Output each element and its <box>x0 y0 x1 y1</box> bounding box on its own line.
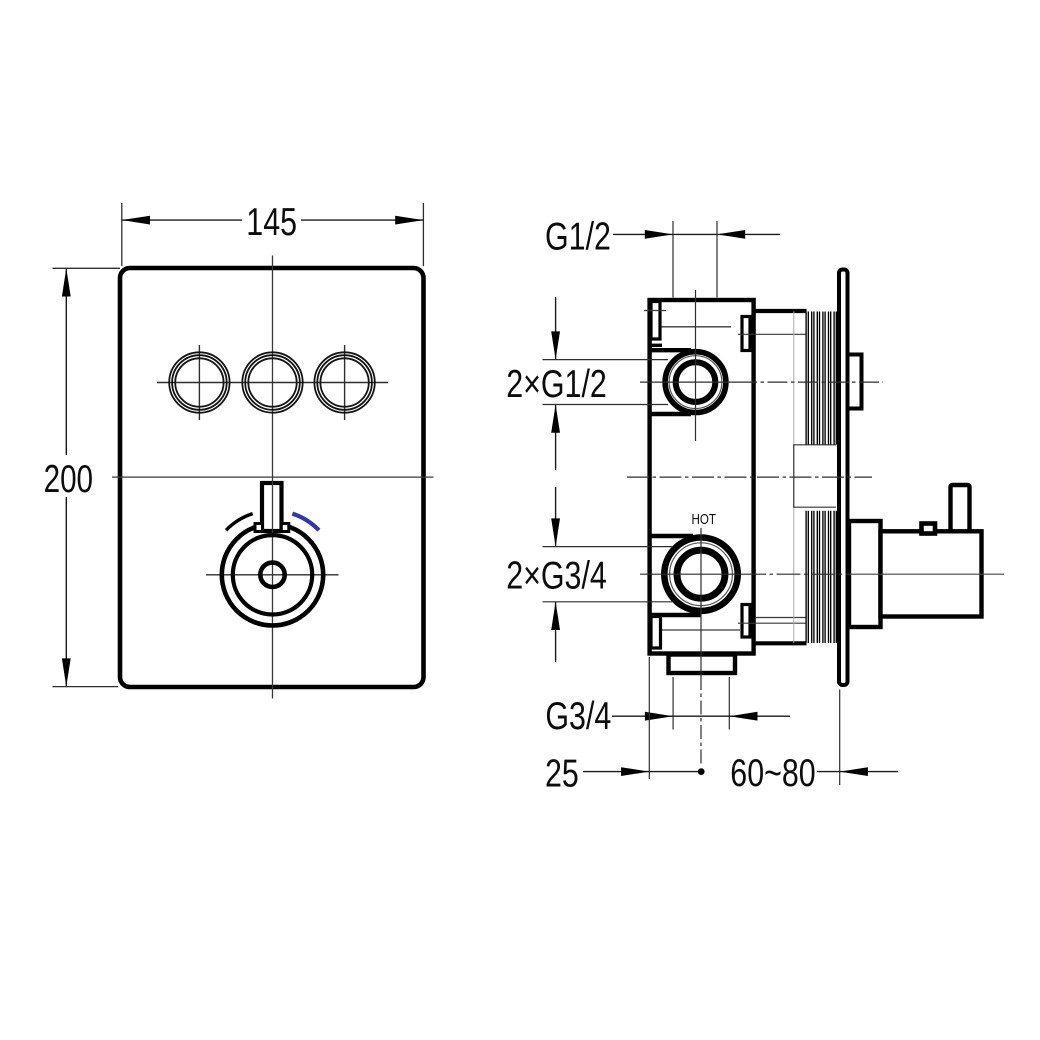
dimension G1/2 arrow right <box>717 230 745 239</box>
button 1 crosshair <box>198 345 200 420</box>
dimension 2xG3/4 ext line top <box>543 546 673 548</box>
handle body <box>881 531 982 616</box>
dimension G3/4 line <box>612 715 790 717</box>
dimension node dot <box>698 768 705 775</box>
dimension 145 arrow right <box>395 216 423 225</box>
lower port thread ring <box>677 550 725 598</box>
dimension 25 line <box>583 771 701 773</box>
rotation arc black <box>226 514 253 531</box>
knob stem ear right <box>281 524 289 532</box>
sleeve inner line bottom 1 <box>756 617 806 619</box>
dimension G3/4 arrow left <box>645 712 673 721</box>
dimension text 2xG3/4 <box>506 554 607 597</box>
temperature pin <box>951 485 970 533</box>
upper port boss bottom <box>650 412 691 416</box>
upper port outer circle <box>665 352 726 413</box>
dimension 2xG1/2 ext line bottom <box>543 404 669 406</box>
plate vertical centerline <box>272 256 274 699</box>
dimension text 145 <box>246 200 297 243</box>
button 1 <box>169 352 229 412</box>
dimension 25-60~80 ext line right <box>839 690 841 786</box>
wall plate bar <box>839 270 848 686</box>
wall plate bump upper <box>847 355 862 409</box>
centerline upper port vertical <box>695 290 697 441</box>
upper port boss top <box>650 348 691 352</box>
knob horizontal crosshair <box>206 574 339 576</box>
centerline spigot vertical <box>700 676 702 766</box>
dimension G1/2 ext line left <box>672 221 674 298</box>
lower port boss top <box>650 534 693 539</box>
dimension G1/2 arrow left <box>645 230 673 239</box>
dimension 200 arrow top <box>62 268 71 296</box>
dimension 2xG3/4 arrow bottom <box>551 602 560 630</box>
dimension 2xG1/2 arrow top <box>551 331 560 359</box>
centerline middle horizontal <box>627 476 872 478</box>
dimension G3/4 ext line left <box>672 677 674 730</box>
dimension 2xG3/4 line bottom <box>555 602 557 662</box>
sleeve inner line bottom 2 <box>738 622 806 624</box>
screw lug top-right <box>742 317 750 351</box>
sleeve bottom edge <box>754 641 807 645</box>
body bottom inner line <box>661 629 740 631</box>
upper port thread thin circle <box>669 356 722 409</box>
dimension 60~80 arrow <box>840 767 868 776</box>
lower port outer circle <box>664 538 737 611</box>
svg-text:G1/2: G1/2 <box>545 215 611 258</box>
dimension text G3/4 <box>545 695 611 738</box>
svg-text:2×G1/2: 2×G1/2 <box>506 362 607 405</box>
dimension 2xG1/2 ext line top <box>543 359 669 361</box>
knob stem <box>262 483 282 531</box>
dimension text 200 <box>44 458 93 501</box>
svg-text:200: 200 <box>44 458 93 501</box>
screw lug bottom-right <box>742 605 750 638</box>
upper port boss step <box>648 344 662 347</box>
handle collar <box>849 521 881 627</box>
button 2 <box>242 352 302 412</box>
dimension 145 line <box>122 219 242 221</box>
handle small bump <box>922 524 936 534</box>
button 3 <box>314 352 374 412</box>
knob inner ring <box>233 535 312 614</box>
knob center circle <box>260 563 284 587</box>
dimension 200 arrow bottom <box>62 658 71 686</box>
screw lug bottom-left <box>651 617 661 649</box>
centerline over stem <box>272 481 274 533</box>
lower port boss bottom <box>650 613 701 618</box>
rotation arc blue <box>292 514 319 531</box>
dimension 2xG3/4 arrow top <box>551 518 560 546</box>
valve body <box>650 300 754 654</box>
sleeve step notch <box>794 445 836 507</box>
svg-text:G3/4: G3/4 <box>545 695 611 738</box>
dimension G3/4 arrow right <box>729 712 757 721</box>
dimension 145 arrow left <box>122 216 150 225</box>
front plate <box>120 268 424 687</box>
sleeve inner line top <box>738 333 806 335</box>
dimension 25 ext line left <box>648 657 650 779</box>
dimension 60~80 line <box>817 771 898 773</box>
threads upper section <box>806 312 836 445</box>
lower port thread thin circle <box>670 543 733 606</box>
dimension 2xG1/2 line top <box>555 297 557 360</box>
sleeve root line <box>793 312 795 644</box>
centerline lower port horizontal <box>640 573 742 575</box>
dimension 200 ext line top <box>53 267 121 269</box>
button 3 crosshair <box>344 345 346 420</box>
dimension text 2xG1/2 <box>506 362 607 405</box>
screw lug top-left <box>651 302 660 340</box>
svg-text:60~80: 60~80 <box>730 751 815 794</box>
svg-text:25: 25 <box>545 752 579 795</box>
label HOT <box>692 511 716 528</box>
threads lower section <box>806 511 836 643</box>
dimension 145 ext line left <box>121 203 123 266</box>
centerline lower port vertical <box>700 528 702 676</box>
body counterbore line <box>661 326 731 328</box>
screw boss line top-left <box>644 310 666 312</box>
svg-text:2×G3/4: 2×G3/4 <box>506 554 607 597</box>
sleeve top edge <box>754 309 807 313</box>
dimension 2xG3/4 ext line bottom <box>543 601 673 603</box>
buttons horizontal crosshair <box>157 382 388 384</box>
dimension 2xG1/2 arrow bottom <box>551 405 560 433</box>
plate horizontal centerline <box>112 476 434 478</box>
knob outer ring <box>222 524 323 625</box>
svg-text:HOT: HOT <box>692 511 716 528</box>
dimension 25 arrow <box>621 767 649 776</box>
svg-text:145: 145 <box>246 200 297 243</box>
dimension text 60~80 <box>730 751 815 794</box>
dimension G1/2 ext line right <box>716 221 718 298</box>
dimension G1/2 line <box>613 233 780 235</box>
dimension 2xG1/2 line bottom <box>555 405 557 471</box>
dimension 200 ext line bottom <box>53 686 119 688</box>
knob stem ear left <box>255 524 263 532</box>
outlet spigot bottom <box>669 655 736 674</box>
upper port thread ring <box>676 362 716 402</box>
dimension G3/4 ext line right <box>728 677 730 730</box>
centerline upper port horizontal <box>640 381 737 383</box>
dimension text G1/2 <box>545 215 611 258</box>
dimension text 25 <box>545 752 579 795</box>
dimension 2xG3/4 line top <box>555 487 557 547</box>
dimension 145 ext line right <box>422 203 424 266</box>
dimension 200 line <box>65 268 67 455</box>
